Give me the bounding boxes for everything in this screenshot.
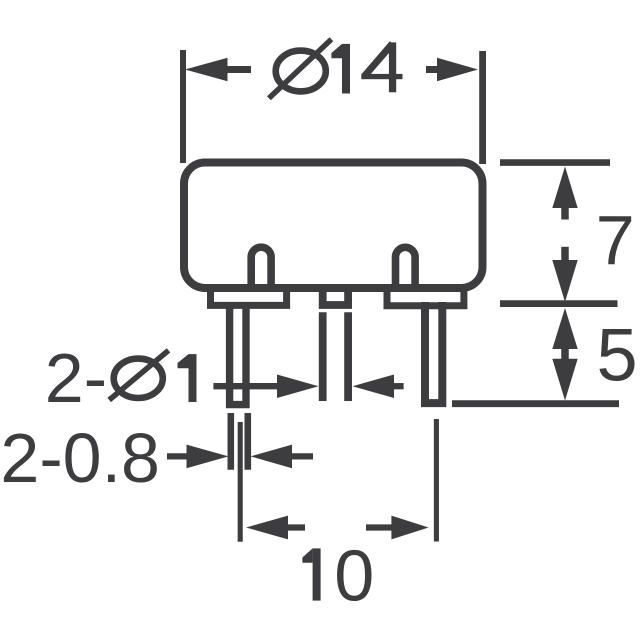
2-0.8 right-pointing arrowhead bbox=[187, 445, 229, 469]
dim 7/5 middle reference line bbox=[500, 300, 618, 307]
label dia 14: digit 1 bbox=[331, 44, 350, 94]
dim 7 top reference line bbox=[500, 159, 610, 166]
label 10 bbox=[302, 548, 320, 600]
dia14 right arrowhead bbox=[437, 58, 478, 81]
right pin Ø1 bbox=[425, 302, 442, 403]
svg-text:0: 0 bbox=[334, 536, 374, 616]
dim 7 down arrowhead bbox=[552, 260, 577, 302]
center pin lines bbox=[323, 312, 348, 401]
svg-text:2-0.8: 2-0.8 bbox=[0, 419, 160, 497]
dia14 left arrowhead bbox=[185, 58, 228, 81]
component body outline bbox=[184, 163, 483, 289]
dim 7 lower stub bbox=[561, 247, 569, 261]
right lead notch inside body bbox=[396, 247, 416, 290]
dim 10 right arrowhead bbox=[391, 516, 428, 540]
2-0.8 left-pointing arrowhead bbox=[251, 445, 293, 469]
svg-text:5: 5 bbox=[597, 314, 638, 397]
dim 5 stub bbox=[561, 347, 569, 360]
center standoff boss bbox=[323, 288, 348, 305]
dim 5 bottom reference line bbox=[452, 400, 619, 407]
dim 10 left arrowhead bbox=[246, 516, 288, 540]
dia14 left dim stub bbox=[226, 66, 251, 73]
pin tip 0.8 flat lines bbox=[231, 413, 248, 470]
dim 5 up arrowhead bbox=[552, 308, 577, 349]
label dia 14: diameter symbol bbox=[269, 39, 332, 98]
dim 5 down arrowhead bbox=[552, 359, 577, 401]
dia14 left extension line bbox=[180, 50, 186, 163]
dim 10 left stub bbox=[287, 524, 305, 530]
label dia 14: digit 4 bbox=[361, 42, 402, 92]
dim 10 right stub bbox=[366, 524, 392, 530]
stub right of center pin bbox=[393, 383, 404, 389]
dia14 right extension line bbox=[479, 51, 486, 164]
dia14 right dim stub bbox=[426, 66, 439, 73]
svg-text:7: 7 bbox=[596, 201, 635, 279]
dim 10 left extension line bbox=[238, 422, 243, 542]
dim 7 up arrowhead bbox=[552, 167, 577, 209]
left pin Ø1 bbox=[230, 302, 246, 405]
2-dia1 left-pointing arrowhead bbox=[353, 375, 395, 399]
left standoff boss bbox=[211, 288, 287, 305]
stub 2-0.8 left bbox=[167, 453, 187, 459]
left lead notch inside body bbox=[251, 247, 271, 290]
stub 2-0.8 right bbox=[292, 453, 313, 459]
2-dia1 right-pointing arrowhead bbox=[277, 375, 319, 399]
right standoff boss bbox=[387, 288, 464, 306]
dim 10 right extension line bbox=[434, 419, 439, 542]
dim 7 upper stub bbox=[561, 207, 569, 220]
leader 2-dia1 bbox=[213, 383, 278, 389]
svg-text:2-: 2- bbox=[45, 339, 107, 417]
